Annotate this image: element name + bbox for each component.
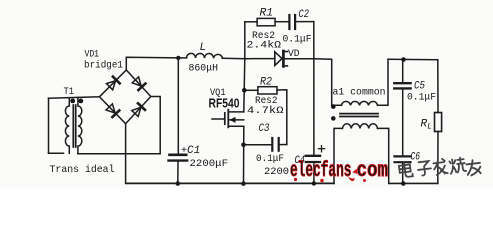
svg-text:4.7kΩ: 4.7kΩ xyxy=(247,105,284,117)
capacitor C4 plates xyxy=(306,155,320,157)
svg-text:T1: T1 xyxy=(64,87,75,98)
diode D-bottomright of bridge (pointing to right corner) xyxy=(131,103,144,116)
capacitor C1 plates xyxy=(170,154,187,157)
resistor RL bottom lead xyxy=(437,132,439,184)
resistor R2 xyxy=(258,87,277,94)
output transformer polarity dot top xyxy=(331,104,336,109)
wire C2 to drop corner xyxy=(296,21,314,23)
svg-text:C2: C2 xyxy=(299,9,310,21)
wire rail dot to inductor xyxy=(178,57,186,59)
node junction dot C5 tap xyxy=(401,57,406,62)
watermark chinese char dian xyxy=(398,161,412,178)
wire top winding right leg to output rail xyxy=(378,59,389,105)
watermark chinese char shao xyxy=(449,157,466,174)
watermark red droplet 4 xyxy=(363,179,366,182)
output bottom rail xyxy=(389,182,438,184)
watermark chinese char fa xyxy=(433,158,448,175)
node junction dot C3 tap xyxy=(241,143,246,148)
wire source down to ground rail xyxy=(243,126,245,183)
diode VD xyxy=(275,51,288,66)
wire drain up to rail xyxy=(244,59,245,112)
mosfet VQ1 drain stub xyxy=(228,111,244,113)
svg-text:L: L xyxy=(200,42,207,54)
wire C5 bottom lead down to C6 xyxy=(402,90,404,156)
resistor RL top lead xyxy=(437,60,439,113)
wire bottom winding left leg to ground rail xyxy=(334,128,342,183)
transformer T1 primary top wire xyxy=(49,97,100,98)
svg-text:2200μF: 2200μF xyxy=(190,159,229,170)
svg-text:860μH: 860μH xyxy=(189,64,219,75)
svg-text:C5: C5 xyxy=(414,81,425,93)
svg-text:0.1μF: 0.1μF xyxy=(283,35,312,46)
capacitor C2 xyxy=(289,15,295,29)
inductor L xyxy=(187,53,223,58)
watermark red droplet 3 xyxy=(348,177,355,182)
watermark chinese char zi xyxy=(417,161,432,176)
svg-text:com: com xyxy=(357,160,389,183)
transformer T1 primary left vertical wire xyxy=(48,98,50,153)
node junction dot source at ground rail xyxy=(241,181,246,186)
node junction dot R2 tap xyxy=(242,88,247,93)
transformer T1 left (primary) winding xyxy=(65,99,69,154)
wire bridge bottom corner to ground rail xyxy=(125,124,127,184)
watermark chinese char you xyxy=(466,159,481,176)
wire inductor to drain node xyxy=(222,57,244,59)
mosfet VQ1 source stub xyxy=(228,125,244,127)
wire R1 to C2 xyxy=(275,21,288,23)
transformer T1 polarity dot (primary) xyxy=(70,99,75,104)
wire bridge top corner to rail xyxy=(126,57,178,70)
wire C3 right lead xyxy=(280,144,287,146)
capacitor C5 plates xyxy=(394,82,410,84)
svg-text:R2: R2 xyxy=(260,77,272,89)
transformer T1 primary bottom wire xyxy=(49,152,64,154)
capacitor C3 xyxy=(272,138,278,151)
diode D-topright of bridge (pointing to right corner) xyxy=(132,77,145,90)
watermark red droplet 1 xyxy=(294,178,297,181)
wire drain node to diode VD anode xyxy=(245,58,275,60)
node junction dot C1 tap on top rail xyxy=(176,56,180,60)
node junction dot C6 at output ground xyxy=(401,181,406,186)
wire C3 left lead xyxy=(244,144,272,146)
transformer T1 core xyxy=(72,105,74,147)
mosfet VQ1 gate bar xyxy=(224,113,226,124)
resistor R1 xyxy=(257,18,275,25)
ground/bottom rail left section xyxy=(126,182,334,184)
diode D-bottomleft of bridge (pointing to bottom corner) xyxy=(106,104,120,118)
node junction dot C4 at ground rail xyxy=(312,181,316,185)
svg-text:R1: R1 xyxy=(260,8,274,20)
wire R1 branch left vertical xyxy=(244,22,246,59)
output transformer polarity dot bottom xyxy=(331,116,336,121)
mosfet VQ1 gate wire xyxy=(212,118,225,120)
diode D-topleft of bridge (pointing to top corner) xyxy=(106,77,120,91)
transformer T1 polarity dot (secondary) xyxy=(78,99,83,104)
svg-text:0.1μF: 0.1μF xyxy=(407,93,436,104)
svg-text:RL: RL xyxy=(421,119,432,132)
node junction dot C1 at ground rail xyxy=(176,181,181,186)
output transformer core xyxy=(340,113,378,115)
svg-text:2.4kΩ: 2.4kΩ xyxy=(247,40,282,52)
resistor RL body xyxy=(435,113,442,132)
wire R2 right lead xyxy=(277,90,287,145)
wire secondary bottom to bridge right corner xyxy=(78,97,160,154)
plus sign of C4 xyxy=(318,146,324,152)
wire to resistor R1 xyxy=(245,21,257,23)
svg-text:VD: VD xyxy=(288,49,300,60)
output transformer bottom winding xyxy=(343,124,378,129)
capacitor C5 top lead xyxy=(402,60,404,83)
capacitor C6 plates xyxy=(395,155,411,157)
wire R2 left lead xyxy=(244,89,258,91)
svg-text:0.1μF: 0.1μF xyxy=(256,154,284,165)
output top rail xyxy=(388,58,438,61)
wire bottom winding right leg down xyxy=(378,128,389,183)
watermark red droplet 2 xyxy=(320,179,324,183)
svg-text:bridge1: bridge1 xyxy=(84,60,123,72)
mosfet VQ1 body arrow stub xyxy=(228,119,244,121)
wire rail to output transformer left xyxy=(314,59,342,106)
transformer T1 right (secondary) winding xyxy=(78,98,82,154)
capacitor C4 bottom lead xyxy=(313,163,315,184)
mosfet VQ1 channel bar xyxy=(227,110,229,128)
watermark elecfans.com xyxy=(290,160,388,183)
svg-text:C3: C3 xyxy=(259,123,270,135)
capacitor C6 bottom lead xyxy=(402,163,404,183)
svg-text:VD1: VD1 xyxy=(85,50,100,61)
svg-text:2200: 2200 xyxy=(264,167,289,178)
capacitor C1 leads xyxy=(177,58,179,154)
wire snubber right drop down to C4 xyxy=(313,22,315,156)
svg-text:Trans ideal: Trans ideal xyxy=(50,164,115,176)
bridge rectifier VD1 diamond edges xyxy=(99,70,150,124)
output transformer a1-common top winding xyxy=(342,101,378,105)
svg-text:+C1: +C1 xyxy=(181,145,200,157)
svg-text:RF540: RF540 xyxy=(209,97,240,111)
svg-text:a1 common: a1 common xyxy=(333,87,386,99)
wire diode VD cathode to snubber drop xyxy=(285,58,314,60)
